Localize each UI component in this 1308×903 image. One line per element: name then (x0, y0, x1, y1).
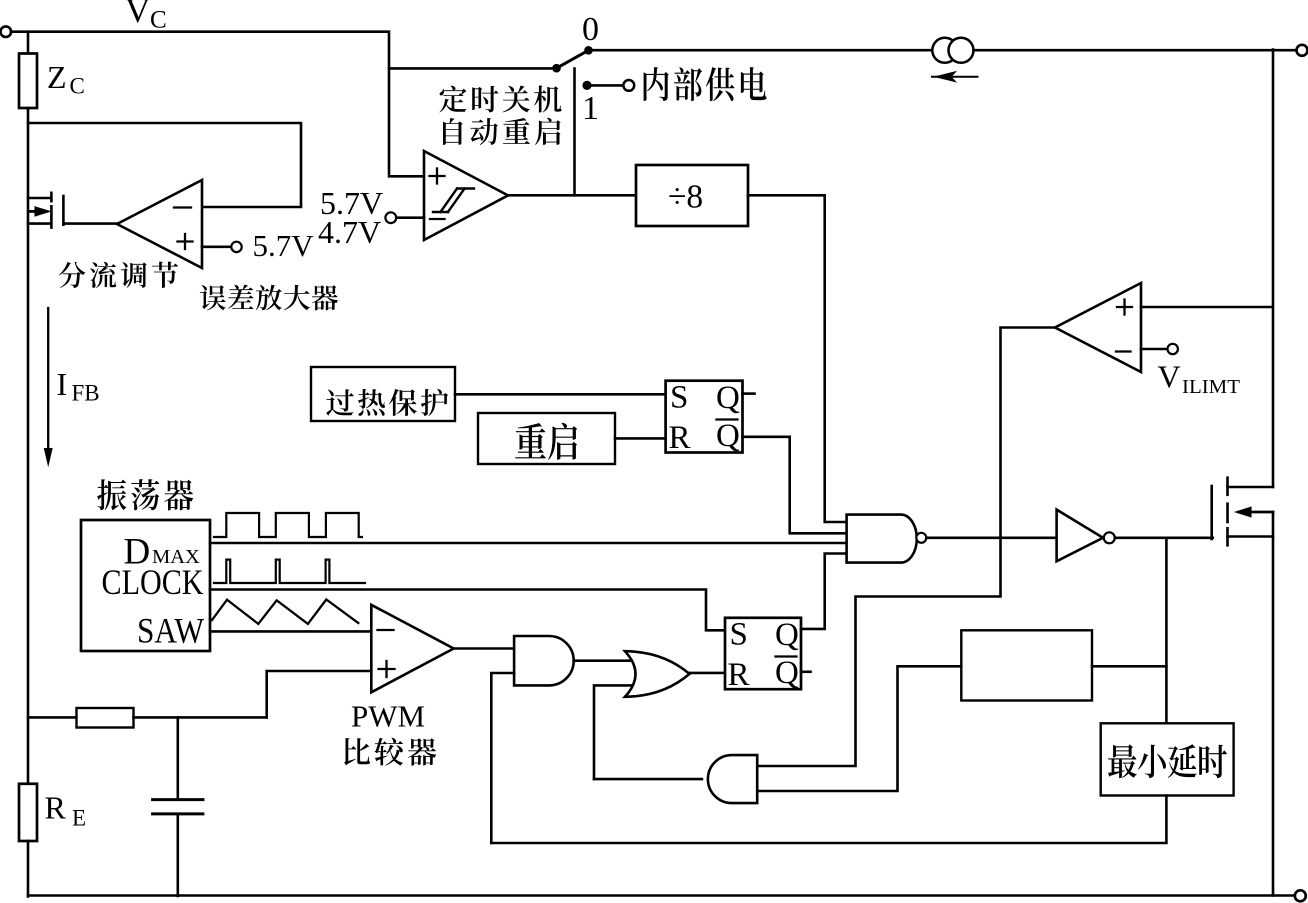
svg-text:R: R (45, 790, 67, 826)
svg-text:4.7V: 4.7V (318, 214, 381, 250)
svg-text:V: V (125, 0, 150, 30)
svg-text:V: V (1158, 359, 1181, 395)
svg-text:0: 0 (582, 11, 599, 48)
svg-text:PWM: PWM (351, 699, 425, 734)
svg-text:Q: Q (775, 617, 799, 653)
svg-text:Q: Q (716, 380, 740, 416)
svg-text:E: E (72, 806, 86, 831)
svg-text:C: C (150, 7, 167, 34)
svg-text:CLOCK: CLOCK (102, 562, 204, 602)
svg-text:S: S (730, 617, 748, 653)
svg-text:R: R (728, 657, 750, 693)
svg-text:5.7V: 5.7V (253, 228, 315, 263)
svg-text:Q: Q (775, 655, 799, 691)
svg-text:I: I (57, 366, 68, 402)
svg-text:FB: FB (72, 381, 100, 406)
svg-text:Q: Q (716, 418, 740, 454)
svg-text:SAW: SAW (137, 611, 204, 651)
svg-text:S: S (670, 380, 688, 416)
svg-text:C: C (70, 74, 85, 99)
svg-text:R: R (669, 420, 691, 456)
svg-text:1: 1 (582, 90, 599, 127)
svg-text:ILIMT: ILIMT (1182, 377, 1240, 398)
svg-text:Z: Z (47, 59, 67, 95)
svg-text:÷8: ÷8 (668, 179, 703, 216)
